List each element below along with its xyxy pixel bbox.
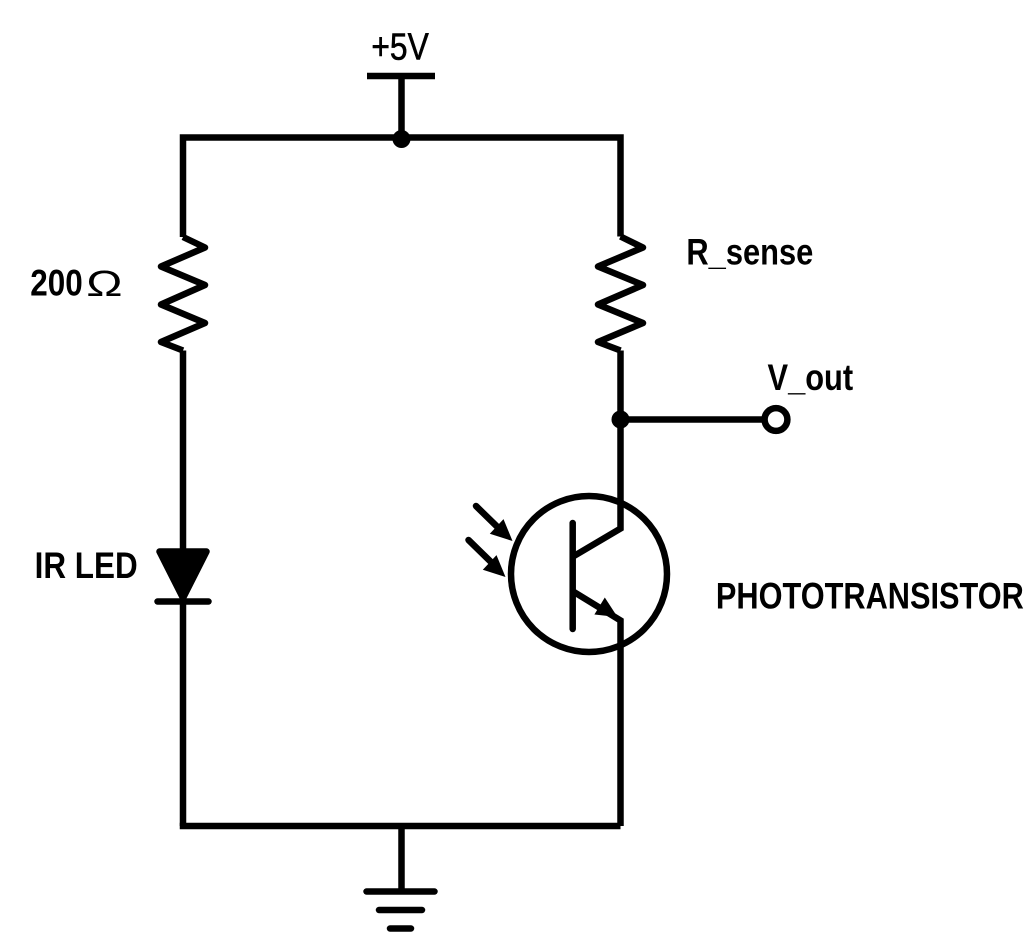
- node V_out junction dot: [612, 411, 630, 429]
- wire top rail: [183, 138, 621, 238]
- ground: [367, 826, 435, 929]
- label V_out: [768, 357, 854, 398]
- collector lead: [574, 420, 621, 557]
- svg-text:+5V: +5V: [371, 26, 429, 68]
- svg-text:V_out: V_out: [768, 357, 854, 398]
- diode IR LED: [158, 552, 209, 602]
- label PHOTOTRANSISTOR: [716, 576, 1024, 617]
- svg-text:IR LED: IR LED: [35, 546, 138, 587]
- svg-text:R_sense: R_sense: [686, 232, 813, 273]
- wire right mid: [617, 351, 624, 420]
- svg-text:200: 200: [30, 263, 82, 304]
- light arrow 1: [476, 506, 513, 541]
- phototransistor Q1 body circle: [511, 496, 667, 652]
- +5V power symbol: [367, 76, 435, 138]
- light arrow 2: [469, 540, 506, 577]
- base bar: [569, 523, 576, 629]
- resistor R_sense: [598, 237, 643, 351]
- wire bottom rail: [180, 823, 621, 830]
- label +5V: [371, 26, 429, 68]
- wire left mid: [180, 351, 187, 553]
- svg-text:PHOTOTRANSISTOR: PHOTOTRANSISTOR: [716, 576, 1024, 617]
- emitter arrow: [594, 598, 617, 618]
- V_out terminal circle: [765, 408, 788, 431]
- label 200 Ohm: [30, 263, 82, 304]
- label IR LED: [35, 546, 138, 587]
- resistor 200 ohm: [161, 237, 205, 351]
- wire V_out: [621, 416, 766, 423]
- emitter lead: [574, 592, 621, 826]
- label R_sense: [686, 232, 813, 273]
- svg-text:Ω: Ω: [86, 264, 122, 305]
- junction dot +5V node: [393, 130, 411, 148]
- wire left bottom: [180, 602, 187, 827]
